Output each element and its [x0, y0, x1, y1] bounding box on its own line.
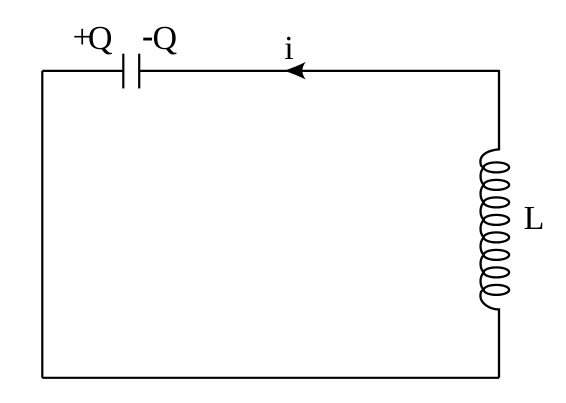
inductor L: connector 5-6	[481, 237, 484, 255]
inductor L: connector 7-8	[481, 272, 484, 290]
label -Q (capacitor right plate charge)	[142, 20, 153, 54]
inductor L: loop 5	[484, 232, 509, 242]
current arrow i (pointing left on top wire)	[284, 62, 306, 80]
capacitor C1: right plate	[138, 54, 140, 89]
wire: top side, left of capacitor	[42, 70, 123, 72]
label i (current)	[284, 32, 293, 66]
label L (inductor)	[524, 202, 545, 236]
inductor L: connector 2-3	[481, 185, 484, 203]
inductor L: connector 3-4	[481, 202, 484, 220]
inductor L: loop 3	[484, 197, 509, 207]
wire: top side, right of capacitor	[139, 70, 499, 72]
inductor L: connector 4-5	[481, 220, 484, 238]
wire: bottom side	[42, 377, 499, 379]
inductor L: loop 7	[484, 267, 509, 277]
label +Q (capacitor left plate charge)	[73, 21, 92, 55]
inductor L: connector 1-2	[481, 167, 484, 185]
inductor L: connector 6-7	[481, 255, 484, 273]
inductor L: loop 2	[484, 180, 509, 190]
inductor L: loop 6	[484, 250, 509, 260]
inductor L: loop 8	[484, 285, 509, 295]
inductor L: loop 1	[484, 162, 509, 172]
wire: left vertical side	[41, 71, 43, 378]
capacitor C1: left plate	[122, 54, 124, 89]
inductor L: bottom hook and exit wire	[480, 290, 499, 378]
inductor L: loop 4	[484, 215, 509, 225]
inductor L: entry wire and top hook	[480, 70, 499, 167]
